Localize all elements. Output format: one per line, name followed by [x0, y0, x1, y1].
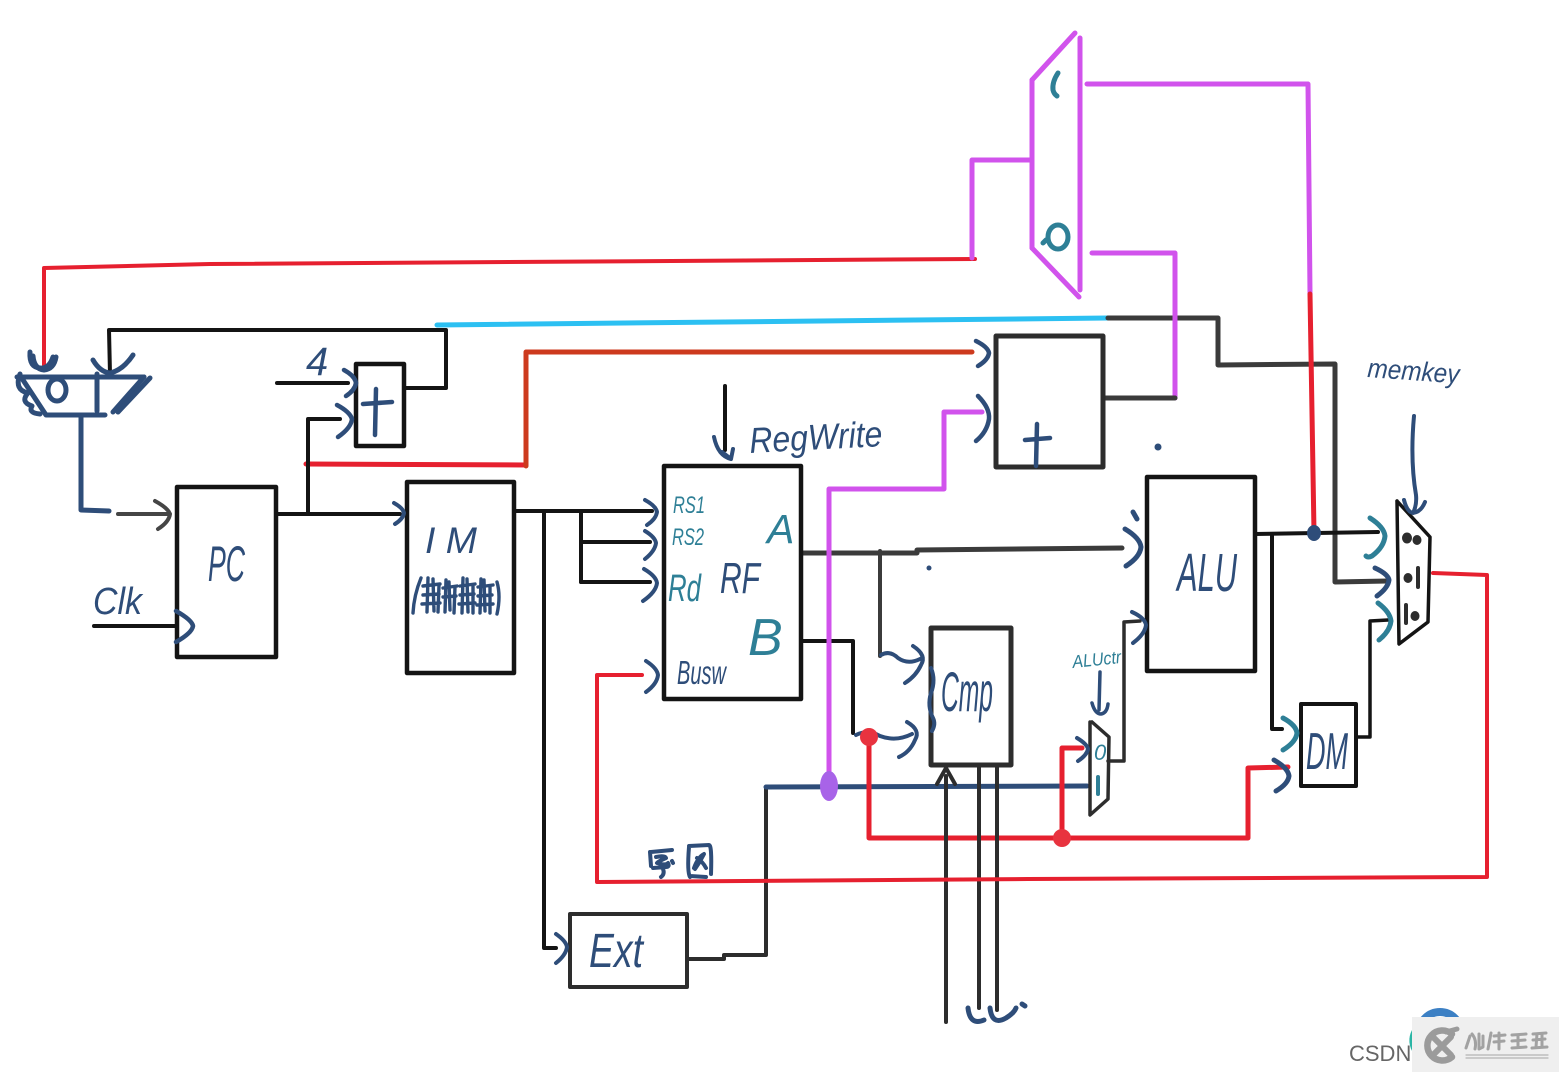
register file RF: [664, 466, 801, 699]
wire: IM output bus to RF inputs and down to Ext: [514, 511, 652, 948]
svg-text:Clk: Clk: [93, 581, 144, 623]
wire: RF B output down to CMP input 2: [801, 641, 853, 733]
svg-text:RF: RF: [720, 554, 761, 603]
node: red junction at CMP input 2: [860, 728, 878, 746]
stray dot near ALU: [927, 444, 1162, 571]
adder ADD2: [976, 336, 1103, 467]
wire: ALU output branch down to DM input 1: [1272, 534, 1282, 729]
svg-text:B: B: [748, 609, 783, 667]
label ALUctr with arrow: [1070, 647, 1123, 714]
wire: big mux output 1 magenta top going right then down: [1087, 84, 1310, 294]
comparator CMP: [931, 628, 1011, 765]
wire: PC output to IM and branch up to ADD1: [276, 383, 400, 514]
arrow into ALU input 1: [1125, 512, 1141, 566]
wire: red continuation down to ALU-output junction: [1310, 294, 1314, 532]
arrowhead: crimson wire into mux M1: [33, 356, 56, 370]
watermark CSDN panel: [1349, 1012, 1559, 1072]
arrow teal into mux M4 input 00: [1366, 518, 1385, 557]
wire: A branch down to CMP input 1: [878, 551, 882, 656]
label 4: [306, 340, 328, 384]
wire: dark-gray path cyan continuation to memkey mux input 01: [1108, 318, 1388, 582]
dots 00 in mux M4: [1402, 533, 1422, 546]
mux M3 (ALUsrc mux, dark): [1090, 722, 1109, 815]
arrow: squiggle into CMP input 1: [881, 646, 923, 683]
svg-text:RS1: RS1: [673, 492, 705, 519]
wire: red write-back from memkey mux output to Busw: [597, 573, 1487, 882]
svg-text:0: 0: [1094, 740, 1107, 765]
wire: big mux output 0 to ADD2 output: [1092, 253, 1175, 398]
svg-text:Rd: Rd: [668, 568, 702, 610]
wire: ALUsrc mux output up to ALU input 2: [1108, 621, 1140, 761]
svg-text:A: A: [764, 506, 794, 552]
svg-text:ALU: ALU: [1175, 543, 1237, 603]
label 1 in mux M3: [1096, 777, 1100, 794]
label (instruction store) scribble: [413, 578, 499, 614]
svg-text:Cmp: Cmp: [941, 660, 993, 723]
mux M4 (memkey write-back mux): [1397, 501, 1430, 644]
label 1 in mux M2: [1053, 73, 1058, 96]
arrow: squiggle into CMP input 2: [856, 722, 917, 757]
svg-text:PC: PC: [208, 536, 245, 592]
wire: RF A output to ALU (thick dark gray): [801, 548, 1122, 553]
svg-text:4: 4: [306, 340, 328, 384]
arrow into mux M3 input 0: [1077, 738, 1088, 761]
instruction memory IM: [394, 482, 514, 673]
label memkey with arrow: [1367, 353, 1462, 513]
wire: Ext output up and navy line right to ALUsrc mux input 1: [687, 789, 766, 959]
node: navy junction on ALU output: [1307, 525, 1321, 541]
ALU U1: [1147, 477, 1255, 671]
wire: red from CMP-input junction down, right, up into DM input 2: [869, 736, 1288, 838]
svg-text:RegWrite: RegWrite: [748, 413, 883, 461]
wire: crimson segment PC output tap: [306, 464, 526, 465]
wire: black loop from ADD1 output up and left to mux M1 second input: [109, 330, 446, 388]
arrow teal into mux M4 input 10: [1378, 603, 1391, 640]
wire: ADD2 output short black: [1103, 396, 1175, 401]
svg-text:ALUctr: ALUctr: [1070, 647, 1123, 672]
wire: magenta left input of big mux M2: [972, 160, 1031, 258]
wire: Clk input line: [94, 624, 176, 628]
data memory DM: [1301, 704, 1356, 786]
wire: ALU output to memkey mux input 00: [1255, 532, 1378, 534]
svg-text:DM: DM: [1306, 723, 1348, 781]
arrow teal into DM input 1: [1283, 718, 1297, 750]
mux M1 (PC source mux, navy hand-drawn): [17, 352, 150, 511]
arrow navy into DM input 2: [1274, 760, 1289, 791]
squiggle at bottom of cmp control lines: [968, 1004, 1025, 1022]
wire: navy wavy segment along CMP left edge: [929, 668, 934, 731]
wire: orange-red PC+4 to ADD2 input: [526, 352, 972, 466]
arrow into EXT: [556, 934, 567, 963]
wire: RegWrite control vertical into RF: [723, 386, 727, 450]
wire: crimson feedback from big mux output to left mux M1: [44, 259, 975, 366]
dots 01 in mux M4: [1404, 568, 1419, 587]
label 0 in mux M3: [1094, 740, 1107, 765]
arrows into RF inputs: [643, 500, 658, 692]
label Clk: [93, 581, 144, 623]
wire: magenta from ADD2 input2 down-left to junction on navy line: [829, 412, 982, 780]
svg-text:CSDN: CSDN: [1349, 1041, 1411, 1066]
mux M2 (branch target mux, magenta): [1032, 33, 1080, 297]
svg-text:Busw: Busw: [677, 654, 727, 691]
wire: cyan instruction-bus from ADD1 corner to the right: [437, 318, 1108, 325]
arrow: into PC: [118, 501, 170, 529]
adder ADD1: [337, 364, 404, 446]
arrow into ALU input 2: [1132, 612, 1146, 643]
label RegWrite: [748, 413, 883, 461]
label write-back (Chinese scribble): [650, 845, 711, 877]
wire: DM output up to memkey mux input 10: [1356, 620, 1388, 737]
dots 10 in mux M4: [1406, 605, 1420, 623]
register PC: [176, 487, 276, 657]
arrowhead up into CMP bottom: [937, 768, 955, 784]
arrowhead RegWrite: [714, 437, 733, 459]
svg-text:I M: I M: [425, 520, 477, 561]
extender EXT: [570, 914, 687, 987]
wire: CMP bottom three vertical lines: [946, 765, 997, 1022]
svg-text:memkey: memkey: [1367, 353, 1462, 389]
arrow navy into mux M4 input 01: [1375, 568, 1389, 596]
svg-text:Ext: Ext: [589, 925, 644, 978]
wire: red branch up into ALUsrc mux input 0: [1062, 748, 1082, 837]
node: red junction on red horizontal: [1053, 829, 1071, 847]
label 0 in mux M2: [1043, 225, 1068, 249]
svg-text:RS2: RS2: [672, 524, 704, 551]
wire: cmp control verticals overdrawn at crossings: [946, 830, 997, 888]
node: purple junction on navy line: [820, 771, 838, 801]
